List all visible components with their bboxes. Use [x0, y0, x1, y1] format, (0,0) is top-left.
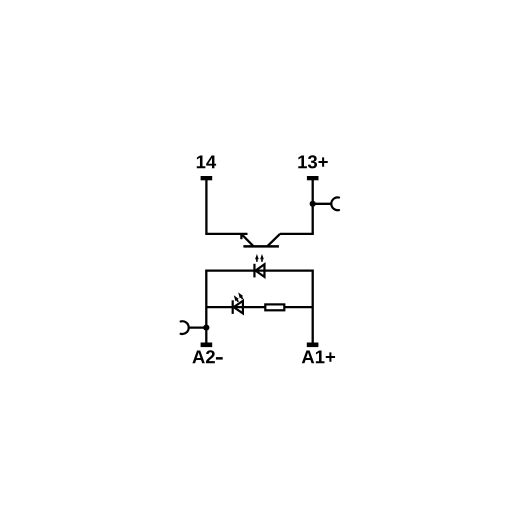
right vertical wire of lower box — [312, 269, 314, 342]
left vertical wire of lower box — [205, 269, 207, 342]
transistor Q1 collector — [267, 234, 280, 246]
transistor Q1 emitter — [241, 234, 253, 246]
middle rail wire — [206, 306, 312, 308]
label A2- — [192, 350, 222, 363]
LED D1 cathode bar — [253, 264, 255, 278]
LED D1 light arrow 2 — [260, 254, 264, 262]
socket arc near 13+ — [331, 197, 339, 210]
terminal A2- — [201, 343, 213, 348]
wire junction to socket arc — [313, 203, 331, 205]
resistor R1 — [265, 304, 284, 310]
wire junction to socket arc — [190, 326, 207, 328]
LED D2 light arrow 2 (tilted) — [237, 291, 245, 300]
node junction on 13+ wire — [310, 201, 316, 207]
LED D2 cathode bar — [232, 300, 234, 314]
terminal 14 — [201, 176, 213, 180]
transistor Q1 emitter arrow barb — [240, 233, 242, 239]
wire 14 down and right to transistor emitter — [206, 179, 247, 234]
terminal A1+ — [307, 343, 319, 348]
node junction on A2- wire — [203, 325, 209, 331]
label A1+ — [302, 350, 335, 363]
transistor Q1 base bar — [243, 245, 279, 248]
label 14 — [197, 155, 216, 168]
LED D2 triangle — [234, 301, 243, 314]
socket arc near A2- — [181, 321, 189, 334]
label 13+ — [298, 155, 327, 168]
LED D1 light arrow 1 — [255, 254, 259, 262]
top rail wire — [206, 269, 312, 271]
LED D1 triangle — [255, 264, 264, 277]
LED D2 light arrow 1 (tilted) — [232, 294, 240, 303]
terminal 13+ — [307, 176, 319, 180]
wire 13+ down and left to transistor collector — [280, 179, 313, 234]
